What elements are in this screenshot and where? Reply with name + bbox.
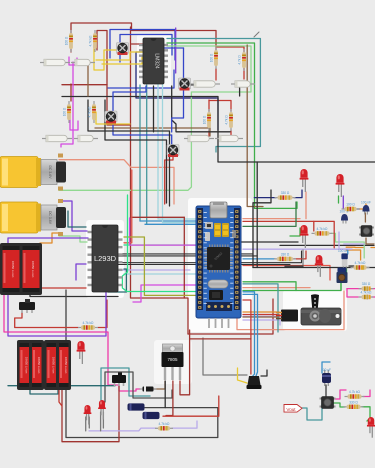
svg-text:100 Ω: 100 Ω xyxy=(210,53,214,62)
svg-text:100 uF: 100 uF xyxy=(321,368,331,372)
svg-text:330 Ω: 330 Ω xyxy=(281,252,290,256)
svg-text:4.7k Ω: 4.7k Ω xyxy=(238,55,242,65)
svg-text:330 Ω: 330 Ω xyxy=(349,400,358,404)
svg-text:18650 Li-ion: 18650 Li-ion xyxy=(11,261,15,278)
svg-text:100 uF: 100 uF xyxy=(338,249,348,253)
svg-text:18650 Li-ion: 18650 Li-ion xyxy=(37,357,41,374)
svg-text:18650 Li-ion: 18650 Li-ion xyxy=(51,357,55,374)
svg-text:100 Ω: 100 Ω xyxy=(63,107,67,116)
svg-text:LM324: LM324 xyxy=(154,53,160,69)
svg-text:18650 Li-ion: 18650 Li-ion xyxy=(31,261,35,278)
svg-text:DC 3-6V: DC 3-6V xyxy=(48,211,52,225)
svg-text:4.7k kΩ: 4.7k kΩ xyxy=(355,261,367,265)
svg-text:4.7k Ω: 4.7k Ω xyxy=(225,115,229,125)
svg-text:100 nF: 100 nF xyxy=(361,201,371,205)
svg-text:7805: 7805 xyxy=(167,357,178,362)
svg-text:18650 Li-ion: 18650 Li-ion xyxy=(24,357,28,374)
svg-text:100 Ω: 100 Ω xyxy=(65,36,69,45)
svg-text:L293D: L293D xyxy=(94,254,117,263)
svg-text:18650 Li-ion: 18650 Li-ion xyxy=(64,357,68,374)
svg-text:4.7k kΩ: 4.7k kΩ xyxy=(88,106,92,118)
svg-text:100 Ω: 100 Ω xyxy=(203,115,207,124)
svg-text:100 Ω: 100 Ω xyxy=(346,203,355,207)
svg-text:Vout: Vout xyxy=(286,407,296,412)
svg-text:4.7k kΩ: 4.7k kΩ xyxy=(349,390,361,394)
svg-text:4.7k kΩ: 4.7k kΩ xyxy=(361,291,373,295)
svg-text:330 Ω: 330 Ω xyxy=(281,191,290,195)
svg-text:DC 3-6V: DC 3-6V xyxy=(48,165,52,179)
svg-text:4.7k kΩ: 4.7k kΩ xyxy=(317,227,329,231)
svg-text:4.7k kΩ: 4.7k kΩ xyxy=(159,422,171,426)
svg-text:4.7k kΩ: 4.7k kΩ xyxy=(89,35,93,47)
svg-text:4.7k kΩ: 4.7k kΩ xyxy=(83,321,95,325)
svg-text:330 Ω: 330 Ω xyxy=(362,282,371,286)
